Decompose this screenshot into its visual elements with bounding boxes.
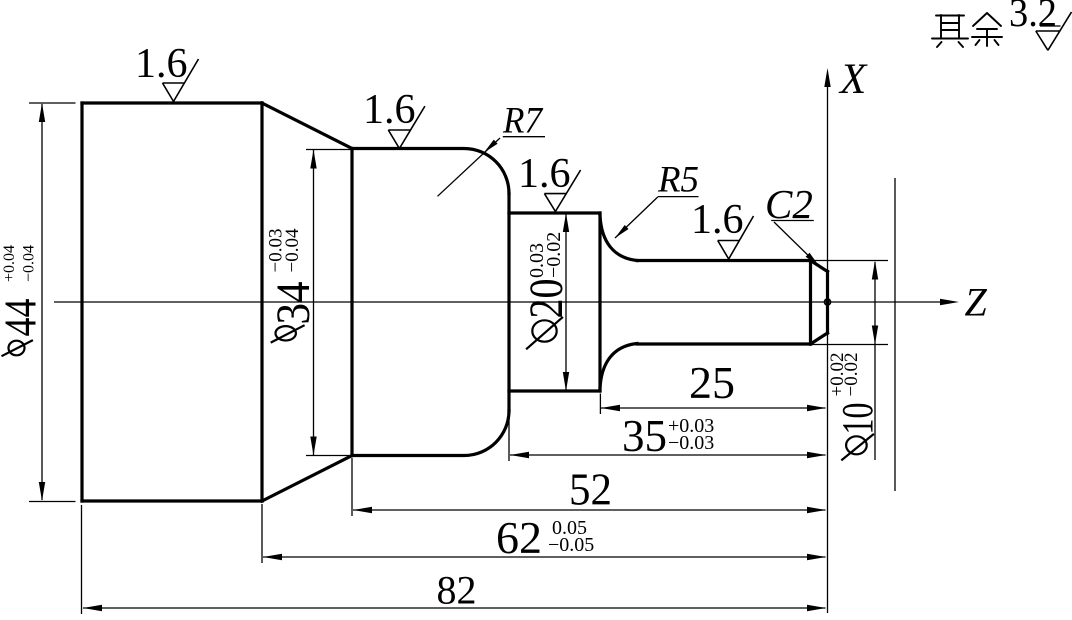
svg-text:X: X	[838, 56, 868, 103]
ext line below shoulder x509 for dim 35	[508, 412, 510, 461]
dim text phi34 rotated	[271, 325, 305, 342]
phi20 top edge	[509, 211, 600, 214]
edge at taper end x=352	[350, 149, 353, 456]
edge at taper start x=262	[260, 103, 263, 501]
phi34 bottom edge with R7 corner arc	[352, 411, 509, 456]
svg-text:−0.02: −0.02	[543, 232, 565, 278]
vertical boundary line right of phi10	[894, 178, 896, 491]
R5 leader arrowhead	[615, 225, 629, 238]
C2 leader arrowhead	[806, 253, 819, 266]
R5 fillet bottom	[600, 344, 637, 389]
phi34 dim extension bottom	[306, 455, 351, 457]
arrowheads	[39, 68, 959, 611]
surface roughness symbol on phi10	[718, 216, 754, 259]
svg-text:3.2: 3.2	[1009, 0, 1057, 35]
phi10 top edge	[637, 259, 811, 262]
part outline: stepped shaft profile	[82, 103, 828, 501]
svg-text:20: 20	[520, 279, 573, 319]
chamfer C2 bottom	[811, 333, 828, 344]
dim text phi10 rotated	[841, 434, 874, 461]
svg-text:−0.02: −0.02	[841, 353, 862, 397]
phi34 dim extension top	[306, 149, 351, 151]
phi44 dim extension top	[29, 102, 76, 104]
phi20 bottom edge	[509, 389, 600, 392]
svg-text:1.6: 1.6	[691, 197, 744, 243]
svg-text:25: 25	[689, 358, 735, 408]
svg-text:1.6: 1.6	[363, 87, 416, 133]
dim text phi44 rotated	[2, 340, 33, 356]
svg-text:C2: C2	[765, 181, 813, 227]
R7 underline	[503, 136, 545, 138]
corner roughness symbol 3.2	[1036, 12, 1072, 50]
surface roughness symbol on phi34	[388, 106, 425, 148]
dim 82 arrows	[83, 605, 102, 611]
shoulder face phi20/R5	[598, 213, 601, 391]
phi10 dimension line	[874, 262, 876, 460]
surface roughness symbol on phi20	[544, 170, 580, 212]
phi10 dim extension top	[812, 260, 888, 262]
svg-text:R5: R5	[657, 160, 699, 201]
surface roughness symbol on phi44	[163, 59, 199, 102]
svg-text:−0.04: −0.04	[282, 228, 303, 272]
right end face	[826, 272, 829, 334]
phi44 dim arrows	[39, 103, 45, 122]
chamfer start edge	[809, 261, 812, 345]
left end face phi44	[80, 103, 83, 501]
dim 62 arrows	[263, 554, 282, 560]
phi10 bottom edge	[637, 342, 811, 345]
dim line 35	[510, 454, 826, 456]
label qi-yu (Chinese: remainder) drawn as strokes	[932, 13, 1002, 47]
svg-text:1.6: 1.6	[135, 41, 188, 87]
underline below 3.2	[1040, 25, 1061, 27]
svg-text:10: 10	[833, 403, 882, 435]
svg-text:Z: Z	[965, 280, 988, 325]
dim line 52	[353, 509, 826, 511]
dim text phi20 rotated	[526, 317, 563, 349]
ext line x352 for dim 52	[351, 458, 353, 516]
svg-text:R7: R7	[502, 101, 543, 142]
phi44 top edge	[82, 101, 262, 104]
svg-text:−0.03: −0.03	[668, 432, 714, 454]
phi44 dimension line	[41, 104, 43, 500]
centerline / Z axis	[54, 301, 941, 303]
svg-text:44: 44	[0, 299, 46, 337]
taper top	[262, 103, 352, 149]
svg-text:35: 35	[622, 411, 667, 461]
Z axis arrow	[940, 299, 959, 305]
svg-text:82: 82	[437, 568, 477, 613]
ext line below shoulder x600 for dim 25	[599, 394, 601, 415]
dim 52 arrows	[353, 507, 372, 513]
phi20 dimension line	[565, 214, 567, 390]
svg-text:−0.05: −0.05	[548, 534, 594, 556]
phi34 dim arrows	[310, 150, 316, 169]
phi44 bottom edge	[82, 499, 262, 502]
dim 35 arrows	[510, 452, 529, 458]
ext line x82 for dim 82	[81, 505, 83, 614]
X axis line	[827, 86, 829, 613]
svg-text:+0.04: +0.04	[1, 245, 18, 282]
phi20 dim arrows	[563, 213, 569, 232]
svg-text:34: 34	[267, 282, 320, 325]
dim line 82	[83, 607, 826, 609]
svg-text:−0.04: −0.04	[21, 245, 38, 282]
svg-text:52: 52	[569, 465, 612, 515]
taper bottom	[262, 456, 352, 502]
svg-text:1.6: 1.6	[518, 151, 571, 197]
phi10 dim extension bottom	[812, 344, 888, 346]
dim 25 arrows	[601, 405, 620, 411]
R5 underline	[658, 196, 699, 198]
svg-text:62: 62	[496, 513, 542, 563]
R5 fillet top	[600, 216, 637, 261]
R7 leader arrowhead	[484, 140, 498, 153]
dim line 62	[263, 556, 826, 558]
shoulder face phi34/phi20	[507, 194, 510, 411]
dim line 25	[601, 407, 826, 409]
R5 leader line	[615, 197, 658, 238]
phi10 dim arrows	[872, 261, 878, 280]
ext line x262 for dim 62	[261, 504, 263, 563]
X axis arrow	[824, 68, 830, 87]
phi34 dimension line	[313, 150, 315, 455]
origin node circle	[825, 299, 831, 305]
chamfer C2 top	[811, 261, 828, 272]
C2 leader line	[774, 222, 819, 266]
R7 leader line	[438, 138, 501, 196]
phi34 top edge with R7 corner arc	[352, 149, 509, 194]
C2 underline	[771, 220, 814, 222]
phi44 dim extension bottom	[29, 501, 76, 503]
